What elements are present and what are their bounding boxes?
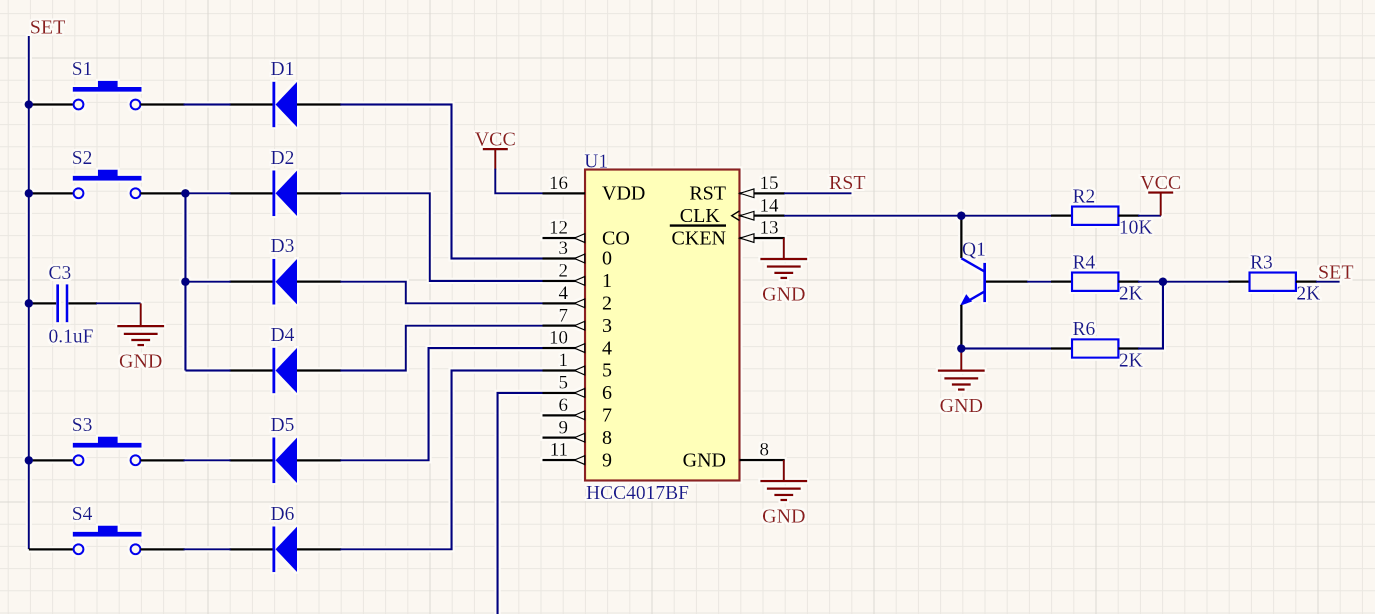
- wire S4 to D6: [184, 548, 231, 550]
- wire D6 to U1 pin 5: [340, 371, 542, 550]
- svg-text:R3: R3: [1250, 252, 1273, 273]
- svg-text:CO: CO: [602, 227, 630, 249]
- U1 pin 9 output 8: [543, 417, 613, 449]
- svg-text:VCC: VCC: [1140, 172, 1181, 194]
- CKEN overline: [670, 224, 726, 226]
- svg-text:D2: D2: [271, 148, 295, 169]
- U1 pin 16 VDD: [543, 173, 646, 205]
- svg-text:3: 3: [602, 315, 612, 337]
- diode D1: [230, 59, 342, 127]
- U1 pin 10 output 4: [543, 328, 613, 360]
- U1 pin 4 output 2: [543, 283, 613, 315]
- svg-text:RST: RST: [689, 183, 726, 205]
- svg-text:U1: U1: [584, 151, 608, 172]
- U1 pin 14 clock marker: [732, 211, 740, 221]
- svg-text:5: 5: [602, 360, 612, 382]
- svg-text:10K: 10K: [1119, 218, 1153, 239]
- wire D2 to U1 pin 1: [340, 193, 542, 281]
- svg-text:2: 2: [559, 261, 569, 282]
- wire D1 to U1 pin 0: [340, 105, 542, 259]
- svg-text:S1: S1: [72, 59, 93, 80]
- power symbol VCC at U1 VDD: [475, 129, 516, 170]
- wire Q1 emitter node to R6: [961, 347, 1051, 349]
- junction node 1: [25, 100, 34, 109]
- svg-text:7: 7: [559, 305, 569, 326]
- svg-text:RST: RST: [829, 172, 866, 194]
- svg-text:GND: GND: [683, 449, 726, 471]
- svg-text:8: 8: [760, 440, 770, 461]
- U1 pin 15 RST: [689, 173, 784, 205]
- power symbol VCC at R2: [1140, 172, 1181, 216]
- junction node 6: [181, 277, 190, 286]
- wire R2 to VCC: [1138, 215, 1161, 217]
- svg-text:11: 11: [550, 440, 568, 461]
- wire RST from pin 15: [784, 192, 852, 194]
- junction node 7: [957, 211, 966, 220]
- svg-text:D4: D4: [271, 325, 295, 346]
- U1 pin 13 CKEN: [672, 218, 785, 250]
- svg-text:CLK: CLK: [680, 205, 721, 227]
- diode D2: [230, 148, 342, 216]
- svg-text:7: 7: [602, 405, 612, 427]
- transistor Q1 (PNP): [960, 216, 1028, 349]
- capacitor C3: [29, 263, 97, 348]
- junction node 9: [1159, 277, 1168, 286]
- svg-text:D6: D6: [271, 504, 295, 525]
- svg-text:D1: D1: [271, 59, 295, 80]
- op-amp U1 body (HCC4017BF counter): [585, 170, 740, 481]
- switch S2: [29, 148, 185, 198]
- U1 pin 14 CLK: [680, 195, 785, 227]
- svg-text:D3: D3: [271, 236, 295, 257]
- wire C3 to GND: [96, 302, 141, 304]
- U1 pin 5 output 6: [543, 373, 613, 405]
- junction node 2: [25, 189, 34, 198]
- wire D5 to U1 pin 4: [340, 348, 542, 460]
- wire R3 to SET: [1316, 281, 1340, 283]
- wire D3 to U1 pin 2: [340, 282, 542, 304]
- svg-text:SET: SET: [30, 17, 66, 39]
- svg-text:CKEN: CKEN: [672, 227, 726, 249]
- junction node 3: [25, 299, 34, 308]
- U1 pin 11 output 9: [543, 440, 613, 472]
- wire S1 to D1: [184, 103, 231, 105]
- svg-text:S3: S3: [72, 415, 93, 436]
- wire Q1 base to R4: [1027, 281, 1052, 283]
- switch S3: [29, 415, 185, 465]
- svg-text:6: 6: [559, 395, 569, 416]
- svg-text:9: 9: [602, 449, 612, 471]
- svg-text:GND: GND: [762, 505, 805, 527]
- svg-text:4: 4: [602, 337, 612, 359]
- wire VCC to U1 pin 16: [495, 169, 542, 194]
- junction node 5: [181, 189, 190, 198]
- svg-text:R2: R2: [1073, 186, 1096, 207]
- svg-text:14: 14: [760, 195, 780, 216]
- ground symbol at U1 pin 8: [760, 460, 807, 527]
- wire R6 to R4/R3 junction: [1138, 282, 1163, 349]
- svg-text:15: 15: [760, 173, 779, 194]
- svg-text:GND: GND: [940, 395, 983, 417]
- svg-text:5: 5: [559, 373, 569, 394]
- svg-text:GND: GND: [119, 351, 162, 373]
- diode D5: [230, 415, 342, 483]
- junction node 4: [25, 456, 34, 465]
- svg-text:1: 1: [602, 270, 612, 292]
- wire S2 to D2: [184, 192, 231, 194]
- wire branch to D3: [185, 281, 230, 283]
- diode D3: [230, 236, 342, 304]
- U1 pin 7 output 3: [543, 305, 613, 337]
- wire from bottom edge to U1 pin 6: [498, 393, 543, 614]
- U1 pin 1 output 5: [543, 350, 613, 382]
- svg-text:GND: GND: [762, 283, 805, 305]
- resistor R3: [1229, 252, 1321, 304]
- ground symbol at C3: [117, 303, 164, 372]
- switch S1: [29, 59, 185, 109]
- svg-text:16: 16: [549, 173, 568, 194]
- wire S3 to D5: [184, 459, 231, 461]
- wire D4 to U1 pin 3: [340, 326, 542, 371]
- ground symbol at Q1 emitter: [938, 349, 985, 418]
- svg-text:3: 3: [559, 238, 569, 259]
- svg-text:0: 0: [602, 248, 612, 270]
- resistor R2: [1051, 186, 1152, 238]
- wire CLK from pin 14 to R2: [784, 215, 1052, 217]
- svg-text:12: 12: [549, 218, 568, 239]
- U1 pin 6 output 7: [543, 395, 613, 427]
- U1 pin 12 CO: [543, 218, 630, 250]
- U1 pin 2 output 1: [543, 261, 613, 293]
- svg-text:R6: R6: [1073, 319, 1096, 340]
- svg-text:VDD: VDD: [602, 183, 645, 205]
- wire branch to D4: [185, 369, 230, 371]
- svg-text:2K: 2K: [1119, 350, 1143, 371]
- U1 pin 8 GND: [683, 440, 785, 472]
- svg-text:2K: 2K: [1119, 284, 1143, 305]
- wire R4 to R3 junction: [1138, 281, 1231, 283]
- svg-text:0.1uF: 0.1uF: [49, 327, 94, 348]
- diode D6: [230, 504, 342, 572]
- svg-text:2: 2: [602, 293, 612, 315]
- ground symbol at CKEN pin 13: [760, 238, 807, 305]
- svg-text:1: 1: [559, 350, 569, 371]
- svg-text:4: 4: [559, 283, 569, 304]
- svg-text:10: 10: [549, 328, 568, 349]
- svg-text:2K: 2K: [1296, 284, 1320, 305]
- svg-text:8: 8: [602, 427, 612, 449]
- U1 pin 3 output 0: [543, 238, 613, 270]
- svg-text:13: 13: [760, 218, 779, 239]
- svg-text:S4: S4: [72, 504, 93, 525]
- svg-text:R4: R4: [1073, 252, 1096, 273]
- svg-text:HCC4017BF: HCC4017BF: [586, 483, 689, 504]
- svg-text:Q1: Q1: [962, 239, 986, 260]
- svg-text:S2: S2: [72, 148, 93, 169]
- diode D4: [230, 325, 342, 393]
- wire SET rail vertical: [28, 36, 30, 549]
- svg-text:C3: C3: [49, 263, 72, 284]
- resistor R4: [1051, 252, 1143, 304]
- junction node 8: [957, 344, 966, 353]
- svg-text:SET: SET: [1318, 262, 1354, 284]
- wire branch rail x=185 from S2 row to D4 row: [184, 193, 186, 370]
- svg-text:VCC: VCC: [475, 129, 516, 151]
- switch S4: [29, 504, 185, 554]
- resistor R6: [1051, 319, 1143, 371]
- svg-text:D5: D5: [271, 415, 295, 436]
- svg-text:9: 9: [559, 417, 569, 438]
- svg-text:6: 6: [602, 382, 612, 404]
